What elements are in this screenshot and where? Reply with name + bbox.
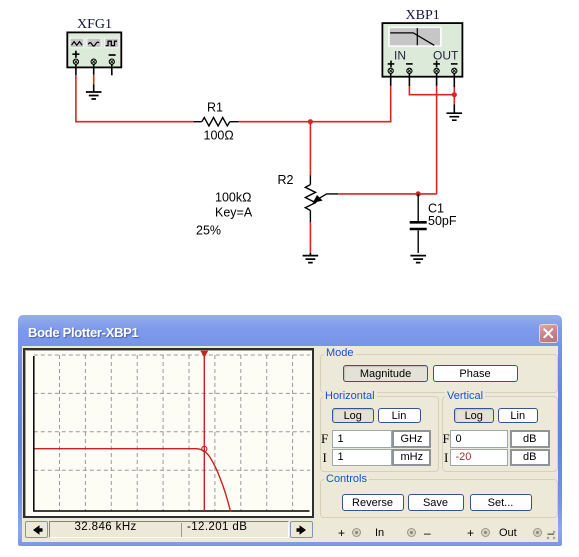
plot panel xyxy=(23,348,314,518)
svg-text:XFG1: XFG1 xyxy=(77,17,112,32)
Mode group xyxy=(320,354,558,393)
label XFG1 xyxy=(77,17,112,32)
XFG1 terminal common xyxy=(91,59,96,64)
label R2 xyxy=(278,173,294,187)
label C1 xyxy=(428,202,444,216)
XFG1 minus pin mark xyxy=(109,54,116,56)
XBP1 IN plus mark xyxy=(388,61,395,68)
label 25% xyxy=(196,224,221,238)
Horizontal group xyxy=(320,396,439,472)
value label 50pF xyxy=(428,214,457,228)
value label 100kohm xyxy=(215,191,251,205)
wire IN- to OUT- red xyxy=(409,86,454,95)
label XBP1 xyxy=(406,8,440,23)
XBP1 IN minus mark xyxy=(406,63,413,65)
XBP1 terminal IN+ xyxy=(388,68,393,73)
function generator XFG1 body xyxy=(67,32,121,67)
value label 100ohm xyxy=(204,129,234,143)
XBP1 terminal IN- xyxy=(407,68,412,73)
svg-text:R2: R2 xyxy=(278,173,294,187)
pin label IN xyxy=(394,48,406,62)
svg-text:XBP1: XBP1 xyxy=(406,8,440,23)
wire R1 to IN+ red xyxy=(239,86,391,122)
status bar xyxy=(25,521,48,538)
XBP1 terminal OUT+ xyxy=(434,68,439,73)
junction node R1/R2 xyxy=(308,119,313,124)
wire R2 wiper to C1 node red xyxy=(338,193,437,195)
junction node OUT- xyxy=(452,92,457,97)
XBP1 OUT minus mark xyxy=(451,63,458,65)
ground under OUT- xyxy=(447,113,463,120)
ground under XFG1 xyxy=(86,92,102,99)
wire OUT- ground lead black xyxy=(453,104,455,113)
wire OUT- red segment xyxy=(453,87,455,104)
svg-text:50pF: 50pF xyxy=(428,214,457,228)
pin label OUT xyxy=(433,48,459,62)
wire XFG1 minus stub xyxy=(111,64,113,75)
junction node wiper/C1 xyxy=(416,191,421,196)
capacitor C1 xyxy=(410,194,427,253)
wire junction down to R2 red xyxy=(309,122,311,176)
XFG1 terminal - xyxy=(109,59,114,64)
svg-text:IN: IN xyxy=(394,48,406,62)
wire IN- lead black xyxy=(408,74,410,87)
Controls group xyxy=(320,479,558,518)
XFG1 plus pin mark xyxy=(72,51,79,58)
wire OUT+ down to wiper red xyxy=(436,86,438,194)
svg-text:25%: 25% xyxy=(196,224,221,238)
svg-text:OUT: OUT xyxy=(433,48,459,62)
XFG1 terminal + xyxy=(73,59,78,64)
wire R2 bottom red xyxy=(309,222,311,253)
wire XFG1 plus to R1 red xyxy=(76,75,194,121)
svg-text:Key=A: Key=A xyxy=(215,206,253,220)
ground under C1 xyxy=(410,256,426,263)
wire OUT- lead black xyxy=(453,74,455,88)
Bode Plotter window xyxy=(18,315,562,546)
Vertical group xyxy=(442,396,558,472)
in/out indicator row xyxy=(338,526,345,540)
potentiometer R2 xyxy=(305,175,338,222)
svg-text:100kΩ: 100kΩ xyxy=(215,191,251,205)
XBP1 terminal OUT- xyxy=(452,68,457,73)
svg-text:R1: R1 xyxy=(207,101,223,115)
svg-text:100Ω: 100Ω xyxy=(204,129,234,143)
wire OUT+ lead black xyxy=(436,74,438,86)
wire XFG1 plus lead black xyxy=(75,64,77,75)
label R1 xyxy=(207,101,223,115)
wire XFG1 common lead xyxy=(93,64,95,91)
label Key=A xyxy=(215,206,253,220)
wire IN+ lead black xyxy=(390,74,392,86)
resistor R1 xyxy=(194,118,239,126)
ground under R2 xyxy=(303,253,319,263)
XBP1 OUT plus mark xyxy=(433,61,440,68)
bode plotter XBP1 body xyxy=(382,23,462,77)
